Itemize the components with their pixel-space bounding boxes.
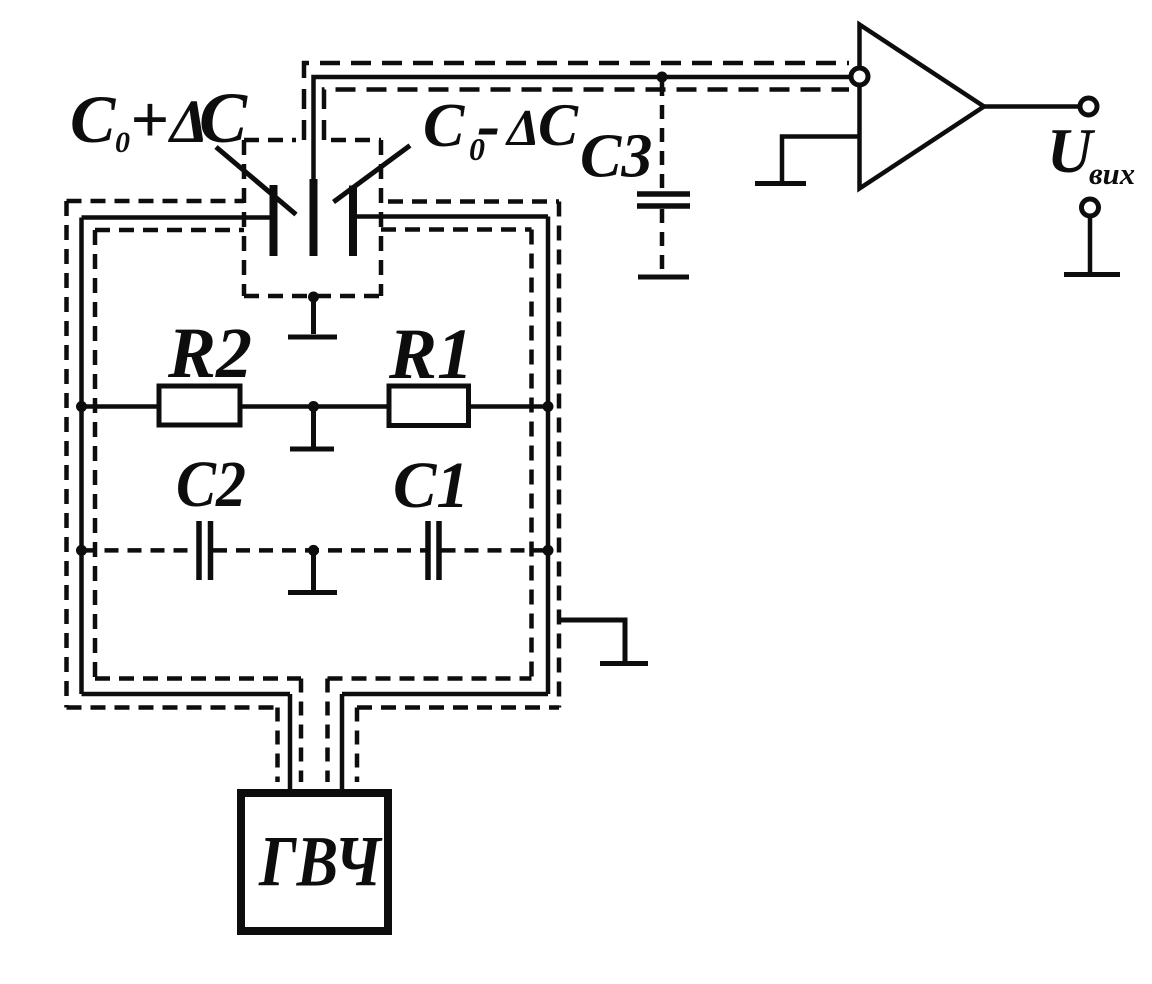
node: C row center [308,545,319,556]
wire: center electrode to op-amp [314,77,852,181]
pointer line C0-dC [334,146,411,203]
shield box around differential capacitor (dashed) [244,140,381,296]
node: R row center [308,401,319,412]
svg-text:C: C [70,81,116,157]
ground under resistor row [290,407,334,450]
svg-text:0: 0 [115,126,130,159]
ground at right shield tab [600,661,648,666]
outer shield box (dashed) [67,201,560,708]
wire: C3 lower lead (dashed) [660,209,665,272]
ground under capacitor box [288,297,337,337]
svg-text:C1: C1 [393,449,469,522]
wire: op-amp output [984,104,1081,109]
node: capacitor box ground junction [308,292,319,303]
wire: left plate feed [82,215,270,220]
op-amp U1 triangle [860,25,985,189]
wire: right generator lead [340,694,345,790]
lower output terminal circle [1082,199,1099,216]
ground at lower terminal [1064,272,1120,277]
capacitor C3 [637,194,690,206]
svg-text:C2: C2 [176,448,246,521]
wire: capacitor row (dashed) [82,548,549,553]
capacitor C1 [428,521,439,580]
pointer line C0+dC [216,147,296,215]
svg-text:C: C [199,78,248,158]
svg-text:ГВЧ: ГВЧ [258,822,383,902]
node: C3 tap on probe wire [657,72,668,83]
capacitor plate center electrode [310,179,318,256]
wire: lower terminal to ground [1088,216,1093,273]
svg-text:C: C [538,92,579,158]
ground at op-amp reference input [755,181,806,186]
generator block GVCh [241,793,388,931]
svg-text:Δ: Δ [505,100,540,157]
svg-text:-: - [477,87,500,164]
resistor R1 [389,386,469,426]
wire: right plate feed [357,214,548,219]
shield lines of generator leads (dashed) [278,679,358,783]
svg-text:R1: R1 [388,314,473,394]
wire: left generator lead [288,694,293,790]
shield pair along probe wire (dashed) [304,63,849,140]
ground under C3 [638,275,689,280]
inner shield box (dashed) [95,230,532,679]
node: left edge / C row [76,545,87,556]
op-amp input terminal circle [851,68,868,85]
ground under capacitor row [288,550,337,592]
capacitor plate left (C0+dC) [270,185,278,256]
wire: resistor row [82,404,549,409]
node: left edge / R row [76,401,87,412]
svg-text:вих: вих [1089,156,1135,191]
node: right edge / R row [543,401,554,412]
resistor R2 [159,386,240,425]
svg-text:C3: C3 [580,123,652,191]
svg-text:R2: R2 [167,313,252,393]
op-amp output terminal circle [1080,98,1097,115]
wire: solid box loop (left edge, right edge, bottom) [82,217,549,695]
svg-text:C: C [423,92,465,160]
node: right edge / C row [543,545,554,556]
svg-text:+: + [130,81,169,157]
capacitor plate right (C0-dC) [349,186,357,257]
wire: op-amp reference input [782,137,860,182]
wire: right shield ground tab [559,620,625,661]
capacitor C2 [199,521,211,580]
wire: C3 upper lead (dashed) [660,82,665,191]
